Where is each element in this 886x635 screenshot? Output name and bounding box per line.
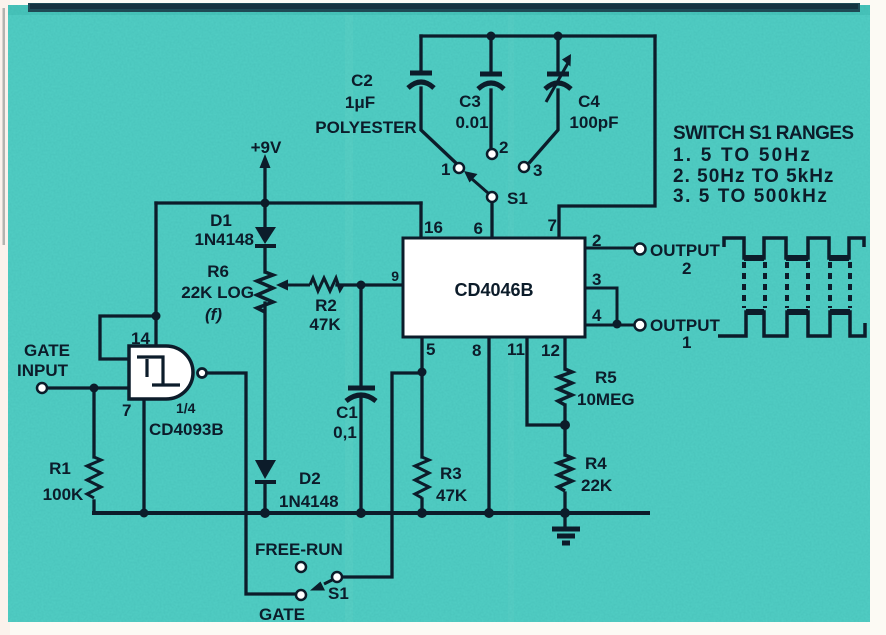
capacitor C2 bbox=[408, 73, 434, 88]
capacitor C3 bbox=[478, 74, 504, 89]
svg-text:C2: C2 bbox=[351, 71, 373, 90]
svg-text:5: 5 bbox=[426, 340, 435, 359]
svg-text:GATE: GATE bbox=[24, 341, 70, 360]
svg-text:S1: S1 bbox=[328, 584, 349, 603]
wire pin 8 bbox=[487, 337, 490, 513]
wire D1-R6 link bbox=[263, 203, 266, 272]
top dark strip bbox=[28, 3, 860, 12]
svg-text:7: 7 bbox=[122, 401, 131, 420]
svg-text:C1: C1 bbox=[336, 403, 358, 422]
svg-text:7: 7 bbox=[548, 216, 557, 235]
waveform OUTPUT 1 bbox=[718, 312, 865, 336]
svg-text:1. 5 TO 50Hz: 1. 5 TO 50Hz bbox=[673, 145, 812, 166]
wire S1 common to pin 6 bbox=[490, 203, 493, 237]
svg-text:R2: R2 bbox=[315, 296, 337, 315]
resistor R4 bbox=[558, 455, 572, 491]
wire gate pin7 ground bbox=[142, 399, 145, 513]
capacitor C1 bbox=[346, 388, 376, 401]
svg-text:C3: C3 bbox=[459, 92, 481, 111]
node C3 top bbox=[487, 32, 496, 41]
op-amp/gate U2 CD4093B NAND bbox=[129, 346, 207, 399]
pin 3 wire bbox=[585, 288, 617, 322]
svg-text:OUTPUT: OUTPUT bbox=[650, 241, 721, 260]
svg-text:2. 50Hz TO 5kHz: 2. 50Hz TO 5kHz bbox=[673, 166, 834, 187]
svg-text:SWITCH S1 RANGES: SWITCH S1 RANGES bbox=[673, 123, 853, 144]
svg-text:R3: R3 bbox=[440, 464, 462, 483]
resistor R5 bbox=[558, 369, 572, 405]
svg-text:1/4: 1/4 bbox=[176, 400, 196, 416]
svg-text:22K LOG: 22K LOG bbox=[181, 283, 254, 302]
svg-text:S1: S1 bbox=[507, 189, 528, 208]
svg-text:FREE-RUN: FREE-RUN bbox=[255, 540, 343, 559]
wire pin 12 bbox=[563, 337, 566, 369]
switch S1b GATE contact bbox=[296, 590, 306, 600]
svg-text:0,1: 0,1 bbox=[333, 423, 357, 442]
switch S1b wiper arrow bbox=[310, 580, 332, 591]
switch S1a contact 3 bbox=[519, 162, 529, 172]
svg-text:1: 1 bbox=[682, 333, 691, 352]
node R2/C1/pin9 bbox=[357, 281, 366, 290]
node bus R4/ground bbox=[560, 508, 570, 518]
svg-text:22K: 22K bbox=[581, 476, 613, 495]
wire top rail bbox=[421, 34, 655, 37]
svg-text:+9V: +9V bbox=[251, 138, 282, 157]
svg-text:6: 6 bbox=[474, 219, 483, 238]
capacitor C4 variable bbox=[545, 54, 571, 102]
wire D2 to bus bbox=[263, 484, 266, 513]
svg-text:R6: R6 bbox=[207, 262, 229, 281]
switch S1a wiper arrow bbox=[464, 171, 488, 193]
wire gate input bbox=[47, 386, 129, 389]
svg-text:1: 1 bbox=[441, 160, 450, 179]
waveform OUTPUT 2 bbox=[724, 238, 864, 258]
svg-text:POLYESTER: POLYESTER bbox=[315, 118, 416, 137]
pin 2 wire bbox=[585, 247, 634, 250]
svg-text:10MEG: 10MEG bbox=[577, 390, 635, 409]
node +9V rail bbox=[261, 199, 270, 208]
svg-text:D1: D1 bbox=[210, 211, 232, 230]
output 2 terminal bbox=[635, 244, 646, 255]
output 1 terminal bbox=[635, 320, 646, 331]
svg-text:12: 12 bbox=[541, 341, 560, 360]
node C4 top bbox=[554, 32, 563, 41]
diode D2 bbox=[255, 460, 276, 482]
wire C4 bottom to contact 3 bbox=[530, 90, 558, 162]
pin 4 wire bbox=[585, 324, 634, 327]
switch S1b FREE-RUN contact bbox=[296, 562, 306, 572]
svg-text:1N4148: 1N4148 bbox=[194, 230, 254, 249]
node bus C1 bbox=[356, 508, 366, 518]
wire S1b common to pin5 junction bbox=[343, 373, 422, 577]
node pin3/pin4 bbox=[613, 320, 622, 329]
wire +9V stem bbox=[263, 168, 266, 203]
svg-text:47K: 47K bbox=[309, 315, 341, 334]
wire gate output to S1b GATE contact bbox=[208, 373, 296, 594]
svg-text:3: 3 bbox=[533, 161, 542, 180]
wire pin16 drop bbox=[419, 203, 422, 237]
node gate input bbox=[90, 384, 99, 393]
svg-text:2: 2 bbox=[499, 138, 508, 157]
wire bottom bus bbox=[94, 511, 648, 515]
svg-text:1N4148: 1N4148 bbox=[279, 492, 339, 511]
wire R2 to pin 9 bbox=[337, 283, 403, 286]
svg-text:INPUT: INPUT bbox=[17, 361, 69, 380]
svg-text:D2: D2 bbox=[299, 469, 321, 488]
svg-text:11: 11 bbox=[507, 340, 525, 359]
wire R5 to R4 bbox=[563, 405, 566, 455]
svg-text:2: 2 bbox=[682, 259, 691, 278]
svg-text:16: 16 bbox=[424, 218, 443, 237]
waveform phase dashed lines bbox=[744, 262, 850, 308]
svg-text:9: 9 bbox=[391, 268, 399, 284]
wire C2 bottom to contact 1 bbox=[421, 88, 457, 164]
switch S1a contact 1 bbox=[454, 163, 464, 173]
svg-text:R5: R5 bbox=[595, 368, 617, 387]
wire C1 branch bbox=[359, 285, 362, 513]
svg-text:CD4093B: CD4093B bbox=[149, 420, 224, 439]
svg-text:3. 5 TO 500kHz: 3. 5 TO 500kHz bbox=[673, 186, 828, 207]
svg-text:2: 2 bbox=[592, 231, 601, 250]
wire R4 to bus bbox=[563, 493, 566, 526]
wire R1 bottom bbox=[92, 501, 95, 513]
diode D1 bbox=[255, 227, 276, 246]
wire right branch to pin 7 bbox=[559, 36, 655, 237]
wire C4 branch top bbox=[556, 36, 559, 74]
wire R6 to D2 bbox=[263, 303, 266, 460]
node feedback bbox=[152, 312, 161, 321]
svg-text:100pF: 100pF bbox=[569, 113, 618, 132]
svg-text:0.01: 0.01 bbox=[455, 113, 488, 132]
svg-text:47K: 47K bbox=[436, 486, 468, 505]
node bus gate pin7 bbox=[140, 509, 149, 518]
svg-text:14: 14 bbox=[131, 329, 150, 348]
resistor R3 bbox=[415, 457, 429, 498]
svg-text:CD4046B: CD4046B bbox=[454, 280, 533, 300]
switch S1b common pole bbox=[332, 572, 342, 582]
wire feedback loop bbox=[100, 316, 156, 359]
switch S1a contact 2 bbox=[487, 149, 497, 159]
resistor R1 bbox=[87, 457, 101, 498]
wire pin 11 bbox=[527, 337, 565, 425]
wire C2 branch top bbox=[419, 36, 422, 73]
svg-text:4: 4 bbox=[592, 306, 602, 325]
wire +9V rail horizontal bbox=[156, 201, 421, 204]
ground bbox=[552, 529, 580, 543]
wire R1 top bbox=[92, 388, 95, 457]
svg-text:GATE: GATE bbox=[259, 605, 305, 624]
svg-text:R1: R1 bbox=[49, 459, 71, 478]
resistor R2 bbox=[310, 278, 343, 291]
svg-text:R4: R4 bbox=[585, 454, 607, 473]
node pin11/R5 bbox=[560, 420, 570, 430]
+9V arrowhead bbox=[260, 154, 271, 168]
wire R3 bottom bbox=[420, 499, 423, 513]
node pin5 bbox=[418, 368, 427, 377]
gate input terminal bbox=[37, 383, 47, 393]
switch S1a common pole bbox=[487, 192, 497, 202]
node bus D2 bbox=[260, 508, 270, 518]
wire C3 bottom bbox=[489, 90, 492, 148]
wire pin14 vertical bbox=[154, 203, 157, 346]
svg-text:C4: C4 bbox=[578, 92, 600, 111]
node bus pin8 bbox=[484, 508, 494, 518]
svg-text:1μF: 1μF bbox=[345, 93, 375, 112]
svg-text:(f): (f) bbox=[205, 305, 222, 324]
svg-text:3: 3 bbox=[592, 270, 601, 289]
svg-text:100K: 100K bbox=[43, 485, 84, 504]
IC U1 CD4046B bbox=[403, 238, 585, 337]
svg-text:8: 8 bbox=[472, 341, 481, 360]
wire C3 branch top bbox=[489, 36, 492, 74]
node bus R3 bbox=[417, 508, 427, 518]
potentiometer R6 bbox=[257, 272, 310, 312]
wire pin 5 bbox=[420, 337, 423, 457]
